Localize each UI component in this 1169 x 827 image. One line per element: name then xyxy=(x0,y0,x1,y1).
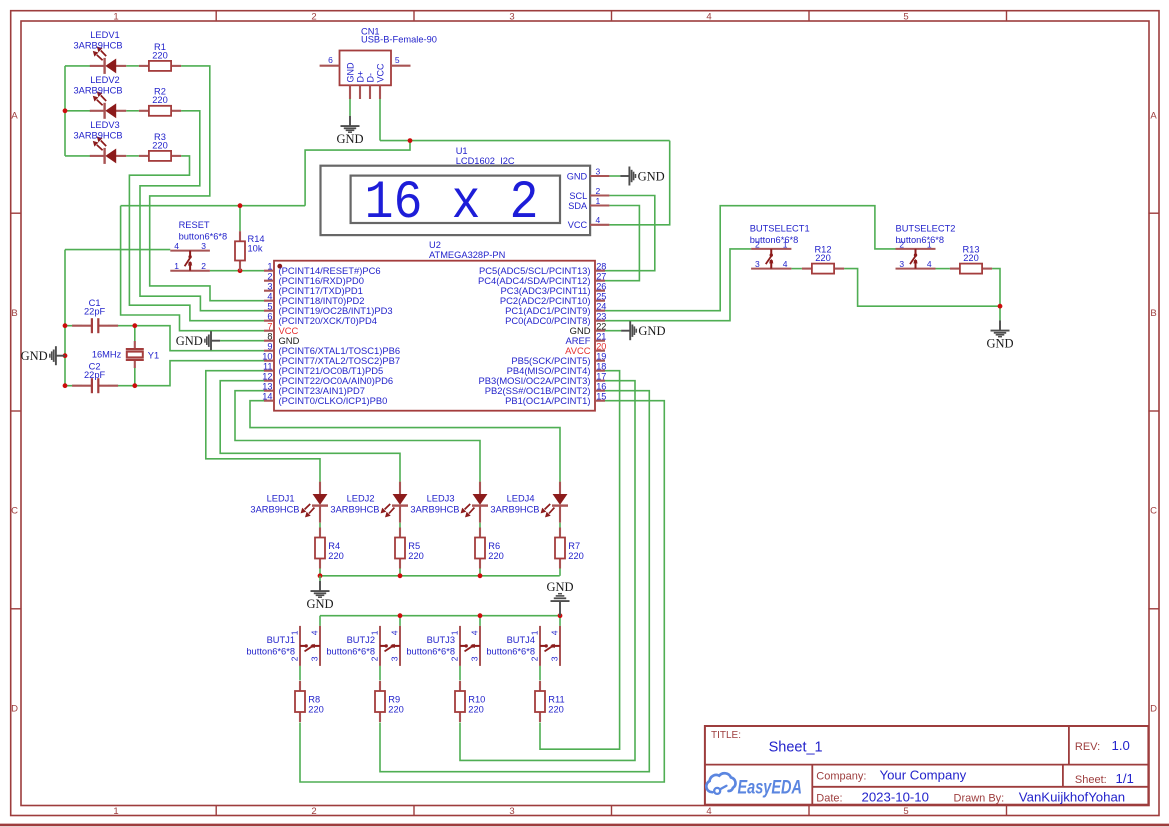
junction at VCC node xyxy=(408,138,413,143)
svg-text:button6*6*8: button6*6*8 xyxy=(486,646,535,656)
svg-text:2: 2 xyxy=(290,656,300,661)
LED LEDJ4 xyxy=(490,482,568,523)
svg-text:R5: R5 xyxy=(408,541,420,551)
svg-text:button6*6*8: button6*6*8 xyxy=(406,646,455,656)
wire C1 right xyxy=(108,325,135,327)
U2 pin 13 xyxy=(262,382,365,397)
svg-text:Drawn By:: Drawn By: xyxy=(954,792,1005,804)
U2 pin 5 xyxy=(264,302,393,317)
wire BUTJ pin 2 to resistor xyxy=(379,666,381,681)
U2 pin 9 xyxy=(264,342,400,357)
svg-text:220: 220 xyxy=(152,95,168,105)
wire rail to BUTJ pin 4 xyxy=(319,616,321,626)
svg-text:2: 2 xyxy=(596,186,601,196)
svg-text:GND: GND xyxy=(546,580,573,594)
svg-text:1: 1 xyxy=(174,261,179,271)
svg-text:D+: D+ xyxy=(355,71,365,83)
junction LEDV2 anode rail xyxy=(63,108,68,113)
svg-text:22pF: 22pF xyxy=(84,370,106,380)
frame column ticks top xyxy=(215,11,217,21)
wire R14 top xyxy=(239,206,241,232)
junction BUTJ rail 4 / GND xyxy=(558,613,563,618)
wire LEDV3 to R3 xyxy=(126,155,139,157)
pushbutton BUTJ1 xyxy=(246,626,320,666)
svg-text:7: 7 xyxy=(267,322,272,332)
U2 pin 27 xyxy=(478,272,606,287)
wire GND stub xyxy=(319,576,321,581)
svg-text:LEDV3: LEDV3 xyxy=(90,120,119,130)
junction at R14 bottom / RESET xyxy=(238,268,243,273)
resistor R4 xyxy=(315,528,344,569)
resistor R3 xyxy=(139,132,181,161)
svg-text:11: 11 xyxy=(263,362,273,372)
svg-text:3: 3 xyxy=(899,259,904,269)
wire U2 pin 8 to GND xyxy=(220,340,264,342)
svg-text:1: 1 xyxy=(113,11,118,22)
U2 pin 25 xyxy=(500,292,607,307)
svg-text:D-: D- xyxy=(365,73,375,83)
svg-text:4: 4 xyxy=(927,259,932,269)
LED LEDJ2 xyxy=(330,482,408,523)
wire BUTSELECT1 pin4 to R12 xyxy=(791,268,802,270)
U2 pin 6 xyxy=(264,312,377,327)
svg-text:10k: 10k xyxy=(248,243,263,253)
U2 pin 21 xyxy=(565,332,606,347)
svg-text:24: 24 xyxy=(596,302,606,312)
svg-text:3ARB9HCB: 3ARB9HCB xyxy=(73,131,122,141)
wire VCC to U2 pin 7 xyxy=(121,206,264,331)
wire R9 to U2 pin 16 xyxy=(380,391,649,772)
svg-text:Sheet:: Sheet: xyxy=(1075,774,1107,786)
U2 pin 8 xyxy=(264,332,300,347)
svg-text:D: D xyxy=(11,704,18,715)
svg-text:3: 3 xyxy=(390,656,400,661)
LCD pin 3 GND xyxy=(590,175,609,177)
wire CN1 VCC down xyxy=(379,99,381,141)
capacitor C1 xyxy=(72,298,118,333)
resistor R14 xyxy=(235,231,265,271)
svg-text:3: 3 xyxy=(509,806,514,817)
svg-text:220: 220 xyxy=(548,704,564,714)
svg-text:4: 4 xyxy=(596,215,601,225)
U2 pin 18 xyxy=(507,362,607,377)
wire CN1 GND down xyxy=(349,99,351,116)
svg-text:5: 5 xyxy=(395,55,400,65)
LCD pin 1 SDA xyxy=(590,204,609,206)
wire U2 pin 24 to BUTSELECT2 xyxy=(605,206,896,311)
wire rail to BUTJ pin 4 xyxy=(399,616,401,626)
svg-text:4: 4 xyxy=(706,11,711,22)
svg-text:220: 220 xyxy=(408,551,424,561)
wire LEDJ to resistor xyxy=(559,523,561,528)
wire BUTJ pin 2 to resistor xyxy=(539,666,541,681)
svg-text:2023-10-10: 2023-10-10 xyxy=(862,789,929,804)
svg-text:16MHz: 16MHz xyxy=(92,349,122,359)
svg-text:Y1: Y1 xyxy=(148,351,159,361)
svg-text:SCL: SCL xyxy=(569,191,587,201)
svg-text:12: 12 xyxy=(262,372,272,382)
svg-text:4: 4 xyxy=(267,292,272,302)
svg-text:14: 14 xyxy=(262,392,272,402)
svg-text:6: 6 xyxy=(328,55,333,65)
svg-text:1/1: 1/1 xyxy=(1116,771,1134,786)
svg-text:2: 2 xyxy=(311,11,316,22)
svg-text:3: 3 xyxy=(596,166,601,176)
junction GND rail xyxy=(63,353,68,358)
connector CN1 USB-B-Female-90 xyxy=(320,27,437,99)
svg-text:GND: GND xyxy=(21,349,48,363)
frame column ticks bottom xyxy=(215,806,217,816)
U2 pin 11 xyxy=(263,362,383,377)
svg-text:4: 4 xyxy=(390,630,400,635)
svg-text:16: 16 xyxy=(596,382,606,392)
svg-text:6: 6 xyxy=(267,312,272,322)
LED LEDV1 xyxy=(73,30,126,74)
wire rail to BUTJ pin 4 xyxy=(559,616,561,626)
svg-text:button6*6*8: button6*6*8 xyxy=(750,235,799,245)
svg-text:220: 220 xyxy=(468,704,484,714)
resistor R7 xyxy=(555,528,584,569)
svg-text:220: 220 xyxy=(488,551,504,561)
wire VCC jog down xyxy=(305,141,410,206)
U2 pin 4 xyxy=(264,292,364,307)
svg-text:LEDV2: LEDV2 xyxy=(90,75,119,85)
wire R3 to U2 pin 6 xyxy=(129,156,264,321)
junction R12/R13 GND node xyxy=(998,304,1003,309)
svg-text:1.0: 1.0 xyxy=(1112,738,1130,753)
U2 pin 10 xyxy=(262,352,400,367)
svg-text:LCD1602_I2C: LCD1602_I2C xyxy=(456,156,515,166)
EasyEDA logo xyxy=(706,773,802,798)
pushbutton BUTJ3 xyxy=(406,626,480,666)
svg-text:BUTJ4: BUTJ4 xyxy=(507,635,535,645)
svg-text:3: 3 xyxy=(310,656,320,661)
wire R8 to U2 pin 15 xyxy=(300,401,664,782)
svg-text:9: 9 xyxy=(267,342,272,352)
wire BUTJ pin 2 to resistor xyxy=(299,666,301,681)
wire RESET pin4 to GND rail xyxy=(65,249,170,251)
ground LCD xyxy=(620,167,664,186)
pushbutton RESET xyxy=(170,220,227,271)
frame row ticks left xyxy=(11,212,21,214)
svg-text:4: 4 xyxy=(783,259,788,269)
LCD pin 4 VCC xyxy=(590,224,609,226)
svg-text:1: 1 xyxy=(596,196,601,206)
svg-text:220: 220 xyxy=(388,704,404,714)
svg-text:TITLE:: TITLE: xyxy=(711,730,741,741)
wire R10 to U2 pin 17 xyxy=(460,381,635,761)
wire VCC horizontal run xyxy=(380,140,670,142)
LED LEDJ1 xyxy=(250,482,328,523)
wire U2 pin 11 to LEDJ1 xyxy=(206,371,320,482)
wire U2 pin 23 to BUTSELECT1 xyxy=(605,249,751,321)
CN1 pin GND xyxy=(349,85,351,99)
wire left GND rail xyxy=(64,250,66,386)
svg-text:22: 22 xyxy=(596,322,606,332)
svg-text:LEDJ4: LEDJ4 xyxy=(507,493,535,503)
wire U2 pin 13 to LEDJ3 xyxy=(235,391,480,482)
wire LEDV anode rail xyxy=(64,66,66,156)
svg-text:C: C xyxy=(1150,506,1157,517)
wire LEDV2 left xyxy=(65,110,91,112)
svg-text:GND: GND xyxy=(638,169,665,183)
svg-text:3: 3 xyxy=(755,259,760,269)
wire GND node stub xyxy=(999,306,1001,320)
resistor R12 xyxy=(802,245,844,274)
svg-text:4: 4 xyxy=(550,630,560,635)
svg-text:26: 26 xyxy=(596,282,606,292)
wire BUTJ pin 2 to resistor xyxy=(459,666,461,681)
wire R12 to GND node xyxy=(844,269,1000,307)
junction at R14 top xyxy=(238,203,243,208)
U2 pin 12 xyxy=(262,372,393,387)
wire R11 to U2 pin 18 xyxy=(540,371,620,750)
svg-text:A: A xyxy=(1150,111,1157,122)
svg-text:BUTJ1: BUTJ1 xyxy=(267,635,295,645)
svg-text:19: 19 xyxy=(596,352,606,362)
LCD module U1 LCD1602_I2C xyxy=(321,146,610,235)
svg-text:GND: GND xyxy=(306,597,333,611)
svg-text:U1: U1 xyxy=(456,146,468,156)
svg-text:4: 4 xyxy=(310,630,320,635)
resistor R5 xyxy=(395,528,424,569)
wire BUTJ top rail xyxy=(320,615,560,617)
junction BUTJ rail 3 xyxy=(478,613,483,618)
wire crystal top xyxy=(134,326,136,341)
resistor R2 xyxy=(139,87,181,116)
svg-text:PB1(OC1A/PCINT1): PB1(OC1A/PCINT1) xyxy=(505,395,590,406)
ground CN1 xyxy=(336,116,363,146)
wire resistor to GND rail xyxy=(319,569,321,576)
svg-text:220: 220 xyxy=(963,253,979,263)
wire LEDV3 left xyxy=(65,155,91,157)
svg-text:1: 1 xyxy=(113,806,118,817)
junction C2 left xyxy=(63,383,68,388)
svg-text:27: 27 xyxy=(596,272,606,282)
wire resistor to GND rail xyxy=(479,569,481,576)
svg-text:GND: GND xyxy=(638,324,665,338)
svg-text:3: 3 xyxy=(509,11,514,22)
svg-text:2: 2 xyxy=(450,656,460,661)
svg-text:220: 220 xyxy=(815,253,831,263)
svg-text:220: 220 xyxy=(568,551,584,561)
svg-text:GND: GND xyxy=(345,62,355,83)
pushbutton BUTSELECT1 xyxy=(750,224,810,270)
svg-text:R11: R11 xyxy=(548,694,564,704)
svg-text:LEDJ2: LEDJ2 xyxy=(347,493,375,503)
svg-text:4: 4 xyxy=(706,806,711,817)
svg-text:3ARB9HCB: 3ARB9HCB xyxy=(330,505,379,515)
junction C1 left xyxy=(63,323,68,328)
resistor R8 xyxy=(295,681,324,722)
svg-text:25: 25 xyxy=(596,292,606,302)
svg-text:4: 4 xyxy=(174,241,179,251)
wire R2 to U2 pin 5 xyxy=(140,111,264,311)
svg-text:2: 2 xyxy=(267,272,272,282)
U2 pin 26 xyxy=(501,282,607,297)
wire LEDJ GND rail xyxy=(320,575,560,577)
svg-text:17: 17 xyxy=(596,372,606,382)
svg-text:3ARB9HCB: 3ARB9HCB xyxy=(250,505,299,515)
svg-text:3ARB9HCB: 3ARB9HCB xyxy=(410,505,459,515)
wire BUTSELECT2 pin4 to R13 xyxy=(936,268,950,270)
capacitor C2 xyxy=(72,361,118,393)
U2 pin 15 xyxy=(505,392,606,407)
wire C2 right xyxy=(108,385,135,387)
wire crystal bottom xyxy=(134,368,136,386)
U2 pin 14 xyxy=(262,392,387,407)
wire LEDJ to resistor xyxy=(479,523,481,528)
svg-text:2: 2 xyxy=(311,806,316,817)
svg-text:Company:: Company: xyxy=(816,771,866,783)
CN1 pin D+ xyxy=(359,85,361,99)
wire resistor to GND rail xyxy=(399,569,401,576)
CN1 pin 6 xyxy=(320,65,340,67)
wire LEDJ to resistor xyxy=(319,523,321,528)
U2 pin 17 xyxy=(478,372,606,387)
wire XTAL1 to U2 pin 9 xyxy=(135,326,264,351)
svg-text:5: 5 xyxy=(903,806,908,817)
wire LCD SDA to U2 pin 27 xyxy=(605,206,639,281)
svg-text:C: C xyxy=(11,506,18,517)
resistor R10 xyxy=(455,681,485,722)
CN1 pin VCC xyxy=(379,85,381,99)
svg-text:2: 2 xyxy=(530,656,540,661)
svg-text:Sheet_1: Sheet_1 xyxy=(769,740,823,756)
svg-text:R4: R4 xyxy=(328,541,340,551)
junction LEDJ rail R4 xyxy=(318,573,323,578)
svg-text:Date:: Date: xyxy=(816,792,842,804)
junction C2 right / crystal bottom xyxy=(132,383,137,388)
svg-text:3: 3 xyxy=(267,282,272,292)
svg-text:button6*6*8: button6*6*8 xyxy=(326,646,375,656)
ground U2 pin 22 xyxy=(621,321,665,340)
ground LEDJ rail xyxy=(306,581,333,611)
resistor R6 xyxy=(475,528,504,569)
CN1 pin 5 xyxy=(391,65,411,67)
svg-text:R8: R8 xyxy=(308,694,320,704)
wire LCD GND stub xyxy=(609,175,620,177)
svg-text:B: B xyxy=(1150,308,1156,319)
U2 pin 7 xyxy=(264,322,299,337)
svg-text:LEDJ3: LEDJ3 xyxy=(427,493,455,503)
svg-text:3: 3 xyxy=(550,656,560,661)
svg-text:GND: GND xyxy=(986,337,1013,351)
svg-text:28: 28 xyxy=(596,262,606,272)
U2 pin 2 xyxy=(264,272,364,287)
wire R1 to U2 pin 4 xyxy=(150,66,264,301)
LED LEDV3 xyxy=(73,120,126,164)
sheet bottom edge line xyxy=(0,824,1169,827)
svg-text:13: 13 xyxy=(262,382,272,392)
junction LEDJ rail R6 xyxy=(478,573,483,578)
title block xyxy=(705,726,1149,805)
wire resistor to GND rail xyxy=(559,569,561,576)
resistor R9 xyxy=(375,681,404,722)
U2 pin 19 xyxy=(511,352,606,367)
svg-text:LEDV1: LEDV1 xyxy=(90,30,119,40)
svg-text:RESET: RESET xyxy=(179,220,210,230)
svg-text:5: 5 xyxy=(903,11,908,22)
svg-text:R10: R10 xyxy=(468,694,485,704)
ground crystal rail xyxy=(21,346,65,365)
wire LCD SCL to U2 pin 28 xyxy=(605,196,655,271)
U2 pin 28 xyxy=(479,262,606,277)
junction BUTJ rail 2 xyxy=(398,613,403,618)
resistor R1 xyxy=(139,42,181,71)
wire C1 left xyxy=(65,325,82,327)
svg-text:EasyEDA: EasyEDA xyxy=(738,778,803,799)
CN1 pin D- xyxy=(369,85,371,99)
svg-text:2: 2 xyxy=(201,261,206,271)
svg-text:220: 220 xyxy=(328,551,344,561)
wire VCC run above R14 xyxy=(121,205,306,207)
crystal Y1 xyxy=(92,341,159,368)
junction LEDJ rail R5 xyxy=(398,573,403,578)
svg-text:BUTJ2: BUTJ2 xyxy=(347,635,375,645)
svg-text:LEDJ1: LEDJ1 xyxy=(267,493,295,503)
pushbutton BUTJ4 xyxy=(486,626,560,666)
wire rail to BUTJ pin 4 xyxy=(479,616,481,626)
ground BUTJ rail xyxy=(546,580,573,616)
svg-text:5: 5 xyxy=(267,302,272,312)
wire LEDV1 left xyxy=(65,65,91,67)
pushbutton BUTSELECT2 xyxy=(896,224,956,270)
svg-text:3: 3 xyxy=(201,241,206,251)
U2 pin 1 marker xyxy=(277,264,282,269)
svg-text:USB-B-Female-90: USB-B-Female-90 xyxy=(361,34,437,44)
svg-text:R14: R14 xyxy=(248,234,265,244)
svg-text:3ARB9HCB: 3ARB9HCB xyxy=(73,86,122,96)
svg-text:REV:: REV: xyxy=(1075,741,1100,753)
svg-text:220: 220 xyxy=(152,50,168,60)
wire XTAL2 to U2 pin 10 xyxy=(135,361,264,386)
svg-text:22pF: 22pF xyxy=(84,307,106,317)
U2 pin 3 xyxy=(264,282,363,297)
U2 pin 23 xyxy=(505,312,606,327)
wire C2 left xyxy=(65,385,82,387)
wire U2 pin 14 to LEDJ4 xyxy=(250,401,560,482)
svg-text:U2: U2 xyxy=(429,240,441,250)
svg-text:ATMEGA328P-PN: ATMEGA328P-PN xyxy=(429,250,505,260)
U2 pin 24 xyxy=(505,302,606,317)
U2 pin 16 xyxy=(485,382,607,397)
wire LEDV1 to R1 xyxy=(126,65,139,67)
svg-text:B: B xyxy=(11,308,17,319)
svg-text:3ARB9HCB: 3ARB9HCB xyxy=(490,505,539,515)
svg-text:VanKuijkhofYohan: VanKuijkhofYohan xyxy=(1019,789,1125,804)
svg-text:23: 23 xyxy=(596,312,606,322)
svg-text:15: 15 xyxy=(596,392,606,402)
wire RESET net to U2 pin 1 xyxy=(210,270,264,272)
svg-text:GND: GND xyxy=(567,171,588,181)
junction C1 right / crystal top xyxy=(132,323,137,328)
svg-text:R9: R9 xyxy=(388,694,400,704)
svg-text:D: D xyxy=(1150,704,1157,715)
wire VCC to LCD VCC pin xyxy=(609,141,669,225)
U2 pin 1 xyxy=(264,262,381,277)
svg-text:2: 2 xyxy=(370,656,380,661)
svg-text:(PCINT0/CLKO/ICP1)PB0: (PCINT0/CLKO/ICP1)PB0 xyxy=(279,395,388,406)
svg-text:GND: GND xyxy=(336,132,363,146)
ground BUTSELECT xyxy=(986,320,1013,350)
LED LEDJ3 xyxy=(410,482,488,523)
svg-text:21: 21 xyxy=(596,332,606,342)
svg-text:3: 3 xyxy=(470,656,480,661)
svg-text:SDA: SDA xyxy=(568,201,588,211)
svg-text:button6*6*8: button6*6*8 xyxy=(896,235,945,245)
svg-text:4: 4 xyxy=(470,630,480,635)
